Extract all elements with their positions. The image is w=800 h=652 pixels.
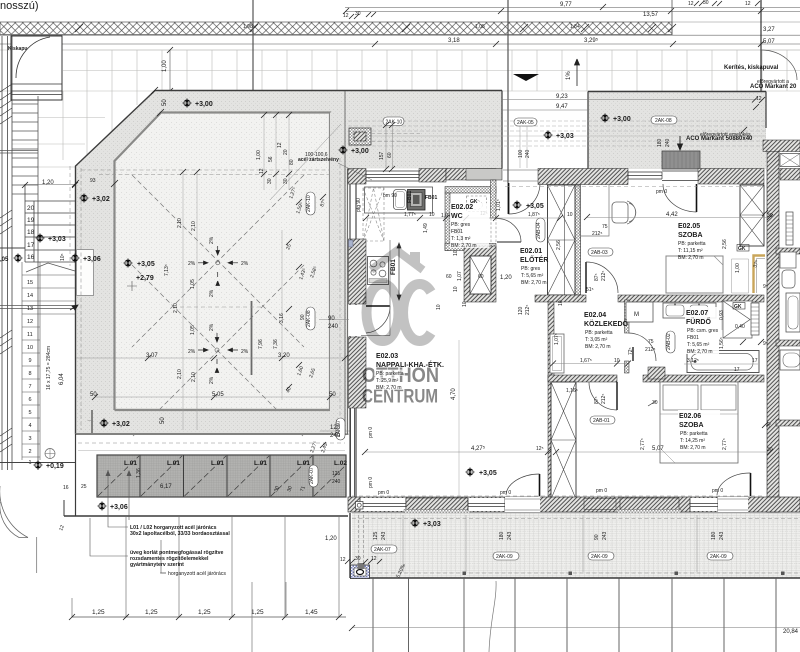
svg-text:11: 11: [27, 332, 33, 338]
neighbour room fixtures: [786, 212, 793, 245]
E02.06 door gap: [718, 497, 748, 512]
neighbour window X box: [780, 154, 800, 167]
svg-text:9,23: 9,23: [556, 94, 568, 100]
svg-text:1,77⁵: 1,77⁵: [404, 212, 416, 218]
svg-text:+3,03: +3,03: [556, 133, 574, 140]
svg-text:3,18: 3,18: [448, 38, 460, 44]
svg-text:ACO Markant 20: ACO Markant 20: [750, 84, 797, 90]
svg-text:9⁵: 9⁵: [763, 341, 768, 347]
svg-text:2%: 2%: [209, 236, 215, 244]
corridor west cabinet: [550, 334, 564, 373]
svg-text:2,56: 2,56: [556, 240, 562, 250]
dim line row2: [0, 43, 800, 45]
small pier between: [648, 367, 665, 379]
dimension line row 1: [345, 8, 800, 12]
svg-text:7,13⁵: 7,13⁵: [164, 264, 170, 276]
E02.06 door SE leaf+arc: [750, 473, 752, 496]
svg-text:17: 17: [734, 367, 740, 373]
svg-text:+3,02: +3,02: [92, 196, 110, 203]
inner vertical dim lines: [183, 170, 282, 430]
svg-text:1,45: 1,45: [305, 609, 318, 616]
west wall: [350, 184, 356, 499]
svg-text:2,77⁵: 2,77⁵: [722, 438, 728, 450]
svg-text:+3,05: +3,05: [479, 470, 497, 477]
level marker +3,05 living: [465, 467, 475, 477]
E02.06 door NW leaf+arc: [616, 382, 618, 410]
svg-text:2AB-03: 2AB-03: [591, 250, 608, 256]
svg-text:+3,02: +3,02: [112, 421, 130, 428]
svg-text:pm 0: pm 0: [368, 427, 374, 438]
entrance door leaf: [508, 183, 510, 214]
dashed offset lines: [81, 168, 345, 430]
svg-text:SZOBA: SZOBA: [679, 422, 704, 429]
svg-text:2: 2: [29, 449, 32, 455]
svg-text:2%: 2%: [209, 289, 215, 297]
svg-text:15: 15: [27, 280, 33, 286]
svg-text:5,07: 5,07: [652, 446, 664, 452]
dim ticks row1: [343, 4, 764, 14]
svg-text:10: 10: [462, 301, 468, 307]
corridor south wall: [548, 375, 617, 382]
svg-text:240: 240: [330, 433, 341, 439]
neighbour sink: [786, 293, 800, 332]
svg-text:93: 93: [90, 178, 96, 184]
svg-text:ACO Markant 50880x40: ACO Markant 50880x40: [686, 136, 753, 142]
svg-text:1,87⁵: 1,87⁵: [528, 212, 540, 218]
kitchen counter: [365, 187, 433, 213]
right stipple block above apartment: [588, 92, 766, 170]
svg-text:1,49: 1,49: [423, 223, 429, 233]
dashed guide vertical: [69, 166, 71, 266]
bottom terrace edge line: [64, 515, 348, 517]
watermark roof: [371, 251, 423, 271]
east wall (shared): [767, 151, 779, 512]
svg-text:7,96: 7,96: [258, 339, 264, 349]
svg-text:87⁵: 87⁵: [594, 273, 600, 281]
svg-text:212⁵: 212⁵: [601, 394, 607, 404]
svg-text:180: 180: [499, 531, 505, 540]
svg-text:2%: 2%: [241, 261, 249, 267]
SZOBA05 bed: [666, 256, 723, 293]
2% slope arrows upper center: [198, 246, 238, 286]
svg-text:50: 50: [162, 99, 168, 106]
GK niche yellow: [754, 256, 766, 294]
line below crosshatch: [0, 34, 800, 36]
roof hip dashed X upper: [132, 175, 304, 436]
svg-text:20: 20: [283, 149, 289, 155]
svg-text:1,25: 1,25: [198, 609, 211, 616]
svg-text:12: 12: [277, 142, 283, 148]
svg-text:10: 10: [453, 286, 459, 292]
svg-text:BM: 2,70 m: BM: 2,70 m: [680, 445, 706, 451]
lower numbered rows 15-1: [22, 262, 76, 460]
room label E02.07 FURDO: [685, 307, 719, 355]
svg-text:pm 0: pm 0: [500, 490, 511, 496]
svg-text:6,04: 6,04: [59, 373, 65, 385]
hob: [368, 257, 389, 285]
svg-text:17: 17: [27, 242, 35, 249]
svg-text:FB01: FB01: [390, 259, 397, 275]
svg-text:pm 0: pm 0: [378, 490, 389, 496]
svg-text:GK: GK: [470, 199, 478, 205]
west terrace door: [349, 305, 357, 336]
svg-text:E02.06: E02.06: [679, 413, 701, 420]
svg-text:30: 30: [267, 178, 273, 184]
svg-text:2AK-09: 2AK-09: [496, 554, 513, 560]
svg-text:25: 25: [81, 484, 87, 490]
svg-text:10⁵: 10⁵: [60, 253, 66, 261]
svg-text:2%: 2%: [209, 376, 215, 384]
ticks on crosshatch: [75, 24, 676, 32]
level marker +3,02 upper: [79, 193, 89, 203]
svg-text:72⁵: 72⁵: [628, 347, 634, 355]
svg-text:100: 100: [518, 149, 524, 158]
svg-text:2,10: 2,10: [177, 218, 183, 228]
bath shower corner: [723, 301, 752, 338]
svg-text:3: 3: [29, 436, 32, 442]
fence line below kiskapu: [0, 151, 38, 154]
svg-text:5: 5: [29, 410, 32, 416]
corridor/bath divider: [625, 300, 630, 333]
svg-text:12: 12: [745, 1, 751, 7]
svg-text:1,25: 1,25: [92, 609, 105, 616]
svg-text:KÖZLEKEDŐ: KÖZLEKEDŐ: [584, 319, 629, 328]
svg-text:80: 80: [289, 159, 295, 165]
svg-text:2%: 2%: [188, 261, 196, 267]
svg-text:4,27⁵: 4,27⁵: [471, 445, 486, 452]
ELOTER east wall: [575, 185, 581, 295]
svg-text:nosszú): nosszú): [0, 0, 39, 12]
thin lines in gap: [502, 100, 756, 111]
dim 1,20: [25, 184, 75, 186]
living east wall: [548, 302, 554, 497]
svg-text:2AK-05: 2AK-05: [517, 120, 534, 126]
svg-text:FB01: FB01: [425, 195, 437, 201]
svg-text:PB: parketta: PB: parketta: [585, 330, 613, 336]
svg-text:PB: parketta: PB: parketta: [376, 371, 404, 377]
svg-text:2%: 2%: [209, 323, 215, 331]
terrace outer boundary stroke: [76, 91, 503, 435]
svg-text:10: 10: [453, 250, 459, 256]
svg-text:16 x 17,75 = 284cm: 16 x 17,75 = 284cm: [46, 346, 52, 390]
level marker +0,19: [33, 460, 43, 470]
level marker +3,03 walkway: [410, 518, 420, 528]
WC toilet dashed: [467, 196, 487, 212]
dim stack left of building corner: [264, 115, 289, 190]
svg-text:+3,00: +3,00: [351, 148, 369, 155]
svg-text:M: M: [634, 312, 639, 318]
svg-text:3,16: 3,16: [279, 313, 285, 323]
svg-text:20,84: 20,84: [783, 629, 799, 635]
SZOBA05 NE wardrobe: [740, 185, 764, 246]
svg-text:1,36: 1,36: [136, 468, 142, 478]
svg-text:2AK-08: 2AK-08: [655, 118, 672, 124]
1% slope arrow: [575, 59, 580, 86]
room label E02.01 ELOTER: [520, 248, 548, 286]
svg-text:,05: ,05: [0, 257, 9, 263]
svg-text:2,10: 2,10: [173, 303, 179, 313]
svg-text:1,00: 1,00: [735, 263, 741, 273]
svg-text:30: 30: [283, 178, 289, 184]
svg-text:+3,05: +3,05: [137, 261, 155, 268]
svg-text:E02.02: E02.02: [451, 204, 473, 211]
svg-text:2,10: 2,10: [191, 221, 197, 231]
svg-text:1,84: 1,84: [570, 24, 580, 30]
svg-text:E02.07: E02.07: [686, 310, 708, 317]
svg-text:50: 50: [160, 417, 166, 424]
level marker +3,02 lower: [99, 418, 109, 428]
svg-text:17: 17: [752, 358, 758, 364]
south wall base: [348, 497, 800, 512]
svg-text:12: 12: [259, 168, 265, 174]
window gap 2: [690, 498, 718, 511]
horizontal dim lines terrace: [76, 357, 347, 359]
svg-text:12: 12: [27, 319, 33, 325]
big arcs bottom-left: [0, 486, 28, 538]
entrance opening threshold: [503, 170, 538, 181]
svg-text:4,70: 4,70: [451, 388, 457, 400]
dim 1,00 at x170: [169, 50, 171, 91]
grate row: [97, 455, 346, 497]
svg-text:1,20: 1,20: [325, 536, 337, 542]
svg-text:51⁵: 51⁵: [586, 287, 594, 293]
right side ticks: [740, 97, 768, 428]
terrace outer stipple polygon: [76, 91, 503, 435]
svg-text:60: 60: [387, 152, 393, 158]
ticks terrace: [72, 87, 348, 448]
numbered tread rows 20-16: [25, 184, 76, 262]
circle + level bottom: [45, 449, 55, 459]
upper stair treads: [12, 104, 38, 194]
WC corner basin: [450, 231, 463, 244]
svg-text:ELŐTÉR: ELŐTÉR: [520, 255, 548, 264]
crosshatch band: [0, 22, 672, 35]
room label E02.05 SZOBA: [678, 223, 706, 261]
svg-text:L.01: L.01: [124, 460, 137, 467]
balcony door W3: [662, 171, 698, 181]
svg-text:NAPPALI-KHA.-ÉTK.: NAPPALI-KHA.-ÉTK.: [376, 360, 444, 369]
svg-text:5,07: 5,07: [763, 39, 775, 45]
svg-text:9,47: 9,47: [556, 104, 568, 110]
dashed tall cupboard kitchen: [363, 188, 384, 241]
svg-text:7,36: 7,36: [273, 339, 279, 349]
SZOBA05 door leaf+arc: [585, 262, 587, 293]
level marker +3,00 terrace right: [338, 145, 348, 155]
svg-text:1,25: 1,25: [145, 609, 158, 616]
svg-text:3,27: 3,27: [763, 27, 775, 33]
drain block at balcony door: [662, 151, 700, 169]
svg-text:0,40: 0,40: [735, 324, 745, 330]
svg-text:1,05: 1,05: [190, 325, 196, 335]
svg-text:horganyzott acél járórács: horganyzott acél járórács: [168, 571, 226, 577]
szoba05 dims: [587, 217, 770, 219]
svg-text:16: 16: [27, 254, 35, 261]
svg-text:10: 10: [436, 304, 442, 310]
apartment dim rows: [366, 217, 560, 219]
svg-text:90: 90: [328, 316, 335, 322]
svg-text:12: 12: [688, 1, 694, 7]
pillar symbol at building NW corner: [349, 128, 371, 145]
svg-text:L.01: L.01: [211, 460, 224, 467]
svg-text:240: 240: [525, 149, 531, 158]
svg-text:E02.05: E02.05: [678, 223, 700, 230]
svg-text:12: 12: [371, 556, 377, 562]
kitchen window W1: [366, 171, 419, 181]
level marker +3,00 right strip: [600, 113, 610, 123]
bath sink counter: [663, 303, 716, 318]
terrace right stipple strip: [330, 113, 349, 434]
svg-text:13: 13: [27, 306, 33, 312]
svg-text:19: 19: [27, 217, 35, 224]
svg-text:T: 1,3 m²: T: 1,3 m²: [451, 236, 471, 242]
svg-text:12: 12: [340, 557, 346, 563]
svg-text:+3,00: +3,00: [195, 101, 213, 108]
wall band S of ELOTER/SZOBA05: [535, 295, 586, 302]
kitchen appliance dark: [408, 190, 426, 211]
svg-text:BM: 2,70 m: BM: 2,70 m: [687, 349, 713, 355]
svg-text:243: 243: [602, 531, 608, 540]
svg-text:2AK-09: 2AK-09: [710, 554, 727, 560]
svg-text:100-100,6: 100-100,6: [305, 152, 328, 158]
svg-text:Kerítés, kiskapuval: Kerítés, kiskapuval: [724, 65, 779, 71]
svg-text:FÜRDŐ: FÜRDŐ: [686, 317, 711, 326]
bathtub: [687, 351, 759, 373]
svg-text:4: 4: [29, 423, 32, 429]
svg-text:243: 243: [381, 531, 387, 540]
level marker +3,05 terrace: [123, 258, 133, 268]
svg-text:180: 180: [657, 138, 663, 147]
svg-text:1,07: 1,07: [457, 271, 463, 281]
svg-text:2AB-01: 2AB-01: [593, 418, 610, 424]
svg-text:212⁵: 212⁵: [592, 231, 602, 237]
west counter: [361, 240, 390, 336]
svg-text:0,93: 0,93: [719, 310, 725, 320]
arrow diagonals: [26, 263, 75, 272]
svg-text:PB: parketta: PB: parketta: [678, 241, 706, 247]
svg-text:87⁵: 87⁵: [594, 396, 600, 404]
svg-text:PB: csm. gres: PB: csm. gres: [687, 328, 719, 334]
svg-text:212⁵: 212⁵: [525, 305, 531, 315]
kiskapu box: [11, 36, 62, 100]
svg-text:75: 75: [602, 224, 608, 230]
svg-text:30: 30: [355, 556, 361, 562]
svg-text:L.02: L.02: [334, 460, 347, 467]
svg-text:30: 30: [355, 11, 361, 17]
vertical reference lines: [252, 0, 254, 95]
window big living: [360, 498, 406, 511]
svg-text:9⁵: 9⁵: [763, 284, 768, 290]
svg-text:2%: 2%: [241, 349, 249, 355]
svg-text:56: 56: [268, 156, 274, 162]
svg-text:2,10: 2,10: [191, 372, 197, 382]
svg-text:3,12⁵: 3,12⁵: [687, 358, 699, 364]
gate arc top right: [761, 50, 797, 80]
svg-text:243: 243: [507, 531, 513, 540]
svg-text:T: 14,25 m²: T: 14,25 m²: [680, 438, 705, 444]
svg-text:1: 1: [29, 460, 32, 466]
svg-text:240: 240: [332, 479, 341, 485]
svg-text:BM: 2,70 m: BM: 2,70 m: [521, 280, 547, 286]
room label E02.03 NAPPALI: [374, 352, 451, 392]
neighbour tub horizontal: [780, 350, 800, 370]
svg-text:8: 8: [29, 371, 32, 377]
svg-text:T: 11,15 m²: T: 11,15 m²: [678, 248, 703, 254]
leader curve: [489, 581, 496, 652]
svg-text:gyártmányterv szerint: gyártmányterv szerint: [130, 562, 184, 568]
svg-text:20: 20: [27, 205, 35, 212]
svg-text:240: 240: [665, 138, 671, 147]
wall E of entrance: [538, 169, 628, 185]
ELOTER wardrobe: [548, 185, 576, 295]
svg-text:E02.04: E02.04: [584, 312, 606, 319]
svg-text:+0,19: +0,19: [46, 463, 64, 470]
svg-text:L.01: L.01: [254, 460, 267, 467]
window W2: [628, 172, 662, 179]
apartment floor white: [358, 183, 764, 497]
svg-text:+3,05: +3,05: [526, 203, 544, 210]
SZOBA05 desk: [580, 185, 609, 236]
svg-text:Kiskapu: Kiskapu: [8, 46, 27, 52]
svg-text:1,67⁵: 1,67⁵: [580, 358, 592, 364]
neighbour tub vertical: [780, 252, 796, 268]
arrow into drain: [678, 136, 683, 150]
svg-text:2,10: 2,10: [177, 369, 183, 379]
svg-text:212⁵: 212⁵: [601, 271, 607, 281]
svg-text:1,00: 1,00: [162, 60, 168, 72]
svg-text:125: 125: [332, 471, 341, 477]
svg-text:212⁵: 212⁵: [645, 347, 655, 353]
svg-text:T: 5,65 m²: T: 5,65 m²: [687, 342, 710, 348]
hatched wall chunks on strip: [0, 84, 12, 452]
svg-text:18: 18: [27, 229, 35, 236]
svg-text:BM: 2,70 m: BM: 2,70 m: [678, 255, 704, 261]
svg-text:10: 10: [27, 345, 33, 351]
svg-text:E02.03: E02.03: [376, 353, 398, 360]
living door gap: [505, 497, 540, 512]
long bottom dim line: [352, 627, 800, 629]
svg-text:120: 120: [518, 306, 524, 315]
svg-text:1,01⁵: 1,01⁵: [496, 199, 502, 211]
svg-text:E02.01: E02.01: [520, 248, 542, 255]
level marker +3,03 gap: [543, 130, 553, 140]
window sill block living: [406, 498, 468, 510]
svg-text:12: 12: [343, 13, 349, 19]
living dims: [365, 451, 548, 453]
svg-text:9,77: 9,77: [560, 2, 572, 8]
svg-text:L.01: L.01: [167, 460, 180, 467]
svg-text:157: 157: [379, 151, 385, 160]
svg-text:+3,00: +3,00: [613, 116, 631, 123]
E02.06 west wardrobe: [551, 382, 576, 499]
svg-text:PB: parketta: PB: parketta: [680, 431, 708, 437]
long level line: [0, 462, 75, 464]
svg-text:1,16⁵: 1,16⁵: [566, 388, 578, 394]
svg-text:1,98: 1,98: [243, 24, 253, 30]
room label E02.04 KOZLEKEDO: [584, 312, 629, 350]
bottom fence verticals: [373, 578, 776, 652]
annotation texts: [130, 525, 230, 568]
svg-text:+3,03: +3,03: [423, 521, 441, 528]
watermark C: [403, 284, 431, 341]
svg-text:2AB-02: 2AB-02: [666, 333, 672, 350]
svg-text:pm 0: pm 0: [712, 488, 723, 494]
svg-text:7: 7: [29, 384, 32, 390]
blue ACO box: [351, 565, 370, 579]
watermark O: [367, 284, 399, 341]
svg-text:+3,06: +3,06: [83, 256, 101, 263]
terrace inner area: [115, 113, 331, 411]
svg-text:BM: 2,70 m: BM: 2,70 m: [451, 243, 477, 249]
